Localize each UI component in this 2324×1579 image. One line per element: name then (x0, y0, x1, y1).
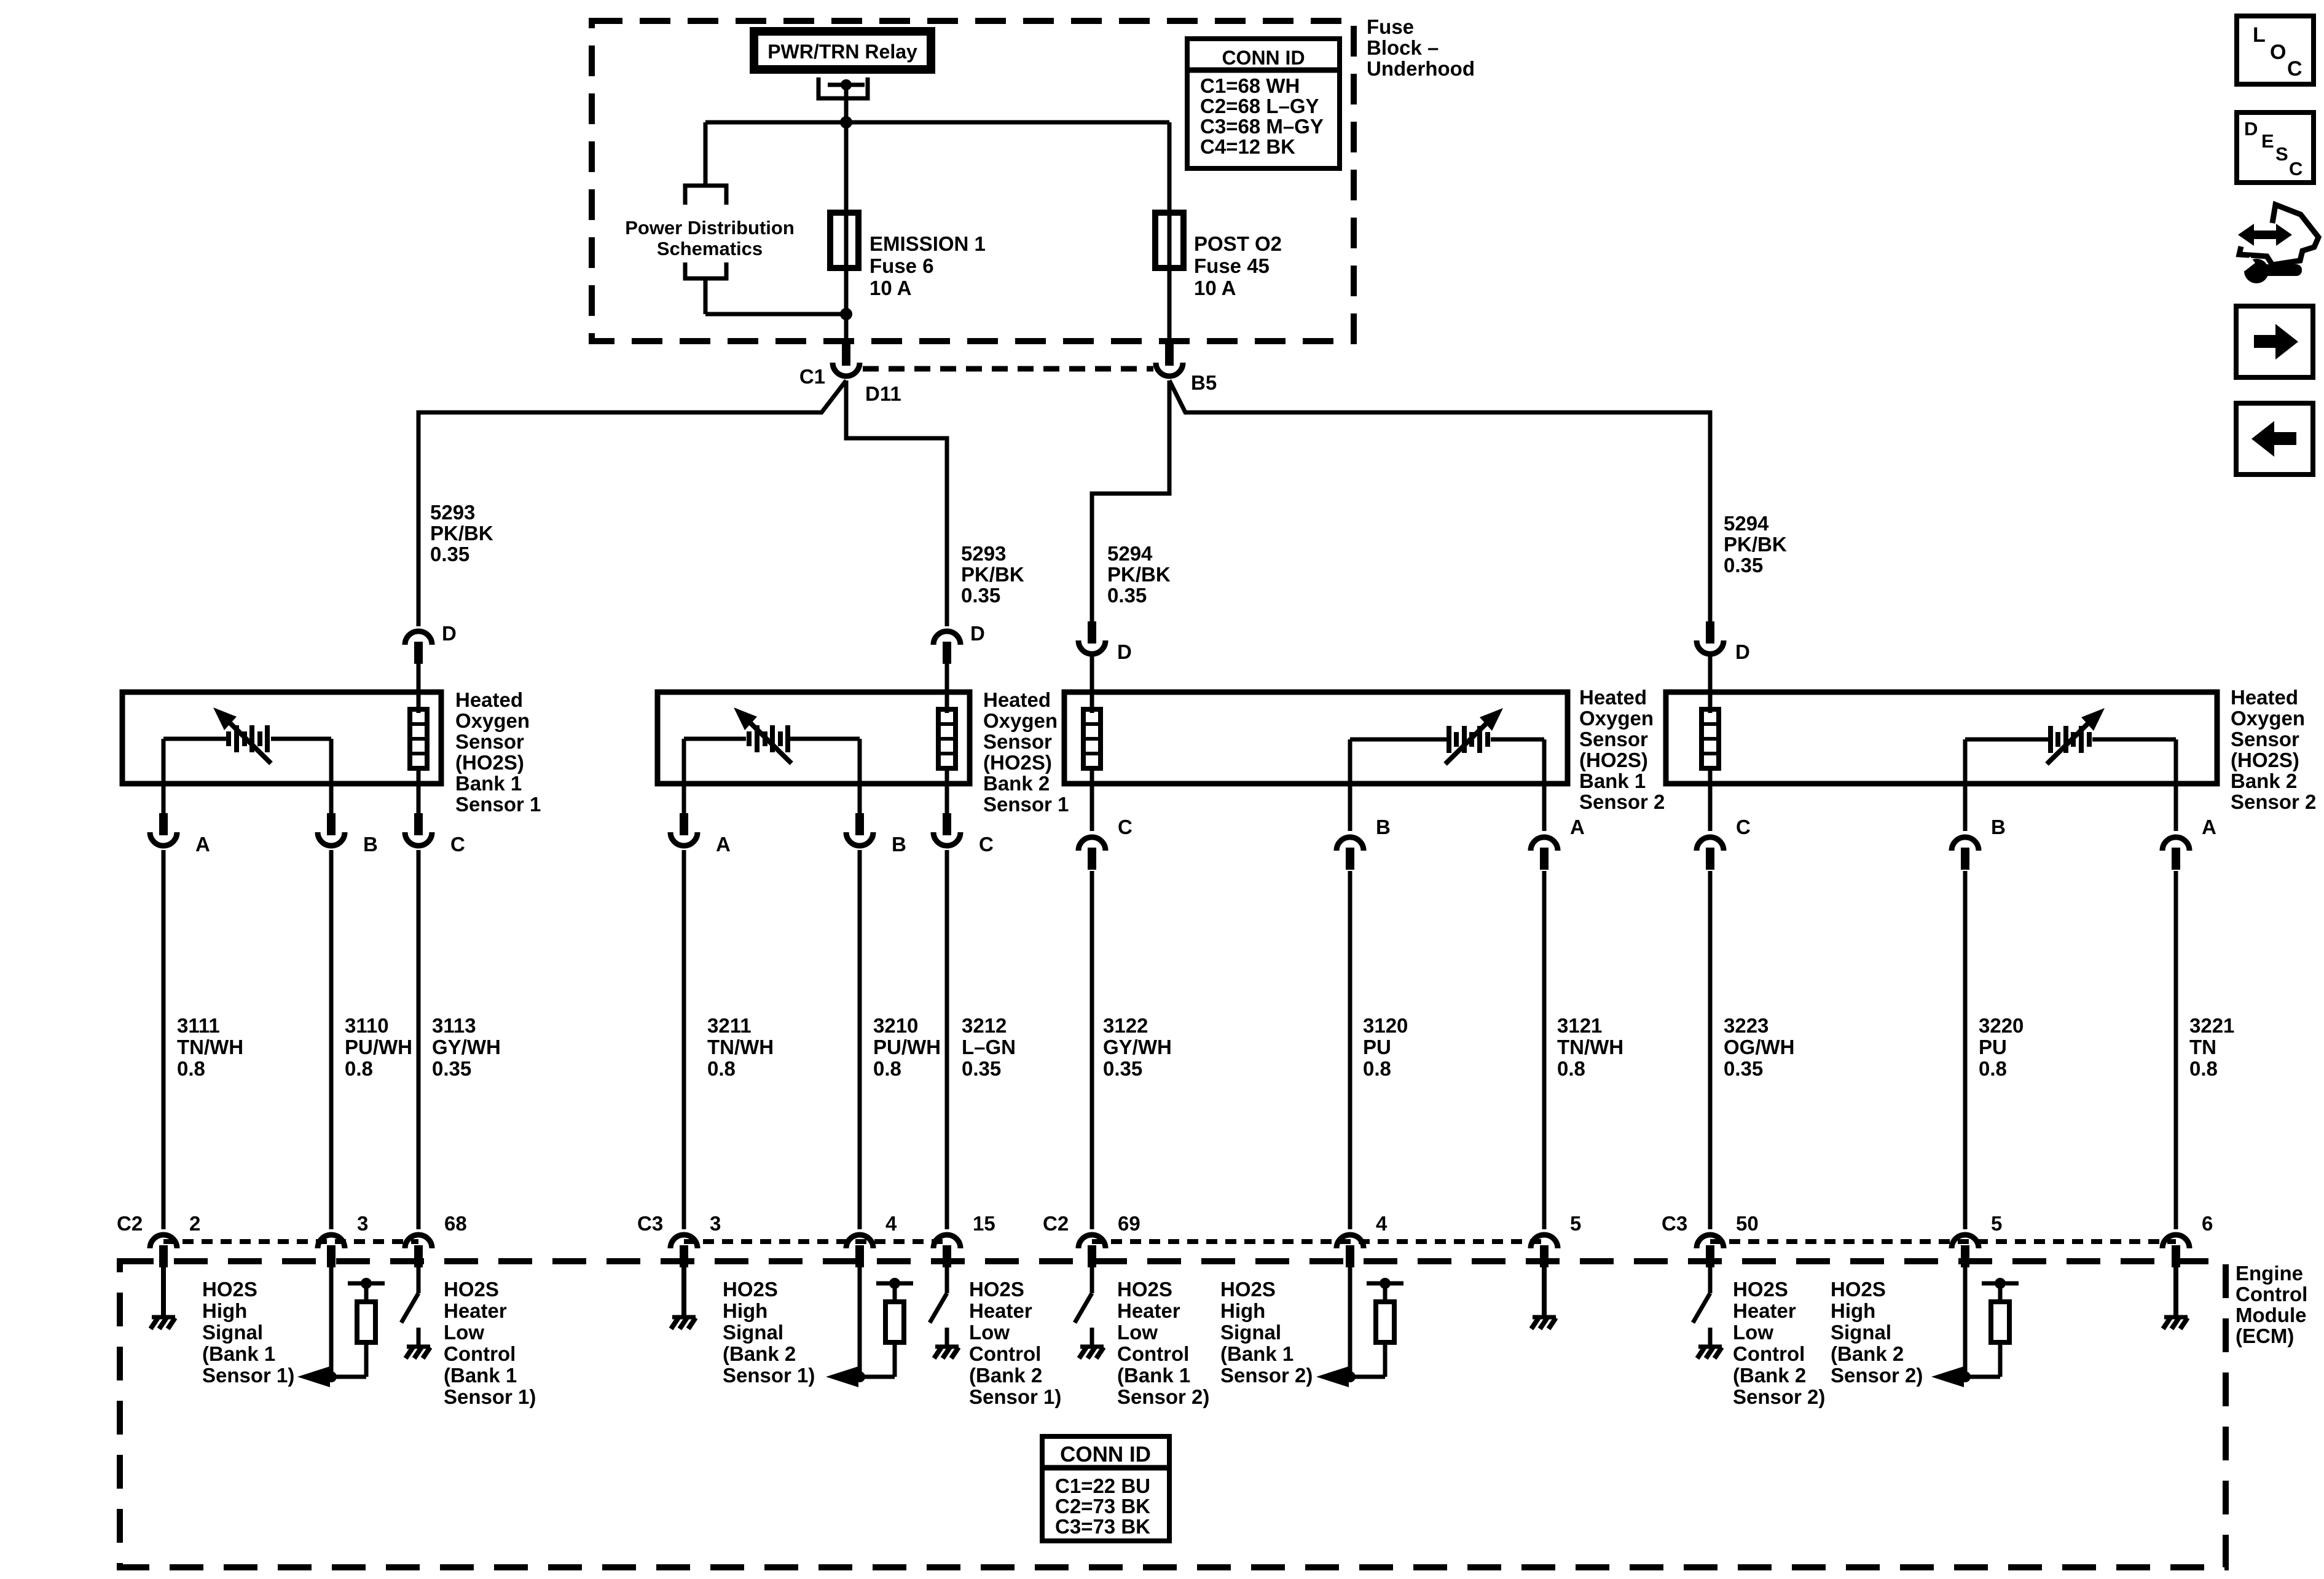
fuse F6 EMISSION 1 10A (830, 213, 858, 268)
resistor (ECM pullup) at x=2254 (1383, 1283, 1388, 1302)
ECM pin 6 connector (2162, 1235, 2189, 1248)
svg-text:Heater: Heater (444, 1299, 507, 1322)
svg-text:3211: 3211 (707, 1014, 752, 1037)
wire 3221 TN to ECM (2174, 871, 2178, 1229)
svg-text:Sensor 2: Sensor 2 (1579, 790, 1665, 813)
svg-text:HO2S: HO2S (969, 1278, 1024, 1301)
svg-text:Sensor 2): Sensor 2) (1117, 1385, 1209, 1408)
power distribution schematics link (bracket symbols) (704, 122, 708, 186)
ground (ECM internal) at x=266 (152, 1315, 175, 1320)
wire 3113 GY/WH to ECM (417, 850, 421, 1229)
arrow: signal into ECM at x=3198 (1931, 1366, 1964, 1387)
ECM pin 50 connector (1697, 1235, 1724, 1248)
sensor cell B2S2 (1965, 738, 2048, 742)
svg-text:A: A (195, 833, 210, 856)
pullup rail bar at x=3255 (1982, 1282, 2019, 1286)
wire 3210 PU/WH to ECM (858, 850, 862, 1229)
connector D at HO2S bank2 sensor2 (1706, 621, 1714, 644)
svg-text:Control: Control (1117, 1342, 1189, 1365)
svg-text:E: E (2261, 130, 2274, 152)
svg-text:D: D (970, 622, 985, 645)
wire: signal pin down to junction at x=2197 (1348, 1265, 1352, 1377)
svg-text:TN/WH: TN/WH (1557, 1036, 1623, 1058)
svg-text:(HO2S): (HO2S) (455, 751, 524, 774)
svg-text:(Bank 2: (Bank 2 (969, 1364, 1042, 1387)
connector pin C (B2S2) (1697, 837, 1724, 851)
svg-text:TN/WH: TN/WH (707, 1036, 774, 1058)
svg-text:L–GN: L–GN (962, 1036, 1016, 1058)
svg-text:Heated: Heated (983, 688, 1051, 711)
ECM pin 5 connector (1531, 1235, 1558, 1248)
node: signal junction at x=1399 (854, 1371, 865, 1382)
svg-text:3122: 3122 (1103, 1014, 1148, 1037)
svg-text:HO2S: HO2S (202, 1278, 257, 1301)
resistor (ECM pullup) at x=3255 (1998, 1283, 2003, 1302)
svg-text:(Bank 2: (Bank 2 (1831, 1342, 1904, 1365)
ECM dashed outline (Engine Control Module) (120, 1261, 2226, 1567)
connector pin C (B1S1) (414, 813, 423, 835)
svg-text:Sensor 2: Sensor 2 (2231, 790, 2316, 813)
ground below switch at x=681 (407, 1345, 430, 1349)
svg-text:C: C (2289, 158, 2302, 179)
svg-text:0.8: 0.8 (345, 1057, 373, 1080)
svg-text:C: C (2287, 57, 2302, 81)
svg-text:PU: PU (1979, 1036, 2007, 1058)
wire: pin to driver switch at x=681 (417, 1265, 421, 1293)
svg-text:Low: Low (444, 1321, 484, 1344)
wire: power distribution branch to fuse 6 node (705, 312, 846, 317)
svg-text:D: D (2244, 118, 2258, 140)
connector id table CONN ID (fuse block) (1187, 39, 1340, 168)
svg-text:Heater: Heater (969, 1299, 1032, 1322)
svg-text:Signal: Signal (723, 1321, 783, 1344)
svg-text:HO2S: HO2S (723, 1278, 778, 1301)
wire: pin to internal ground at x=2513 (1542, 1265, 1547, 1315)
svg-text:High: High (1831, 1299, 1875, 1322)
svg-text:Bank 2: Bank 2 (983, 772, 1050, 795)
connector D at HO2S bank1 sensor2 (1088, 621, 1096, 644)
svg-text:GY/WH: GY/WH (432, 1036, 501, 1058)
svg-text:High: High (723, 1299, 767, 1322)
wire: D to sensor box 1 (417, 663, 421, 713)
svg-text:HO2S: HO2S (1831, 1278, 1886, 1301)
ECM pin 15 connector (933, 1235, 960, 1248)
svg-text:3223: 3223 (1724, 1014, 1769, 1037)
sensor HO2S Bank 2 Sensor 2 box (1666, 692, 2217, 784)
connector pin A (B1S1) (159, 813, 168, 835)
svg-text:POST O2: POST O2 (1194, 232, 1282, 255)
svg-text:D: D (1735, 640, 1750, 663)
svg-text:GY/WH: GY/WH (1103, 1036, 1172, 1058)
svg-text:2: 2 (189, 1212, 200, 1235)
sensor HO2S Bank 1 Sensor 2 box (1064, 692, 1568, 784)
svg-text:Sensor 1): Sensor 1) (444, 1385, 536, 1408)
wire: B2S1 internal legs (682, 739, 686, 815)
svg-text:Engine: Engine (2236, 1262, 2303, 1285)
svg-text:0.8: 0.8 (177, 1057, 205, 1080)
svg-text:High: High (1220, 1299, 1265, 1322)
svg-text:C4=12 BK: C4=12 BK (1200, 135, 1295, 158)
svg-text:A: A (2202, 816, 2216, 838)
ground below switch at x=1777 (1080, 1345, 1104, 1349)
wire: signal pin down to junction at x=539 (329, 1265, 334, 1377)
wire: B1S1 internal legs (162, 739, 166, 815)
svg-text:(Bank 1: (Bank 1 (1220, 1342, 1294, 1365)
svg-text:50: 50 (1736, 1212, 1759, 1235)
svg-text:C3=68 M–GY: C3=68 M–GY (1200, 115, 1324, 138)
sensor cell B1S2 (1350, 738, 1447, 742)
svg-text:Sensor 2): Sensor 2) (1733, 1385, 1825, 1408)
svg-text:Underhood: Underhood (1367, 57, 1475, 80)
switch (heater driver) at x=1777 (1075, 1293, 1092, 1323)
wire: D to sensor box 4 (1708, 656, 1713, 713)
svg-text:5: 5 (1991, 1212, 2002, 1235)
svg-text:C: C (1118, 816, 1133, 838)
svg-text:Control: Control (2236, 1283, 2307, 1305)
node: bus junction at relay (840, 116, 852, 128)
connector pin C (B2S1) (943, 813, 951, 835)
ground below switch at x=1541 (935, 1345, 959, 1349)
svg-text:Low: Low (1733, 1321, 1773, 1344)
svg-text:B: B (892, 833, 906, 856)
ECM pin 5 connector (1952, 1235, 1979, 1248)
connector id table CONN ID (ECM) (1042, 1436, 1169, 1541)
resistor (ECM pullup) at x=596 (364, 1283, 369, 1302)
svg-text:PK/BK: PK/BK (961, 563, 1024, 586)
svg-text:A: A (716, 833, 731, 856)
svg-text:3221: 3221 (2189, 1014, 2234, 1037)
svg-text:C3: C3 (1662, 1212, 1687, 1235)
svg-text:Fuse: Fuse (1367, 15, 1414, 38)
pullup rail bar at x=596 (348, 1282, 385, 1286)
wire: B2S2 internal legs (1963, 739, 1968, 831)
arrow: signal into ECM at x=1399 (826, 1366, 858, 1387)
pullup rail bar at x=2254 (1367, 1282, 1403, 1286)
svg-text:0.35: 0.35 (1724, 554, 1763, 577)
svg-text:(Bank 2: (Bank 2 (1733, 1364, 1806, 1387)
svg-text:Bank 1: Bank 1 (455, 772, 522, 795)
svg-text:0.8: 0.8 (2189, 1057, 2218, 1080)
harness dashed line C1 to B5 (863, 366, 1153, 372)
svg-text:(HO2S): (HO2S) (2231, 749, 2299, 771)
wire 3223 OG/WH to ECM (1708, 871, 1713, 1229)
svg-text:3120: 3120 (1363, 1014, 1408, 1037)
svg-text:0.8: 0.8 (1363, 1057, 1391, 1080)
svg-text:Oxygen: Oxygen (2231, 707, 2305, 730)
wire: resistor to junction at x=1399 (860, 1375, 895, 1379)
svg-text:Sensor 1: Sensor 1 (455, 793, 541, 816)
wire: resistor to junction at x=2197 (1350, 1375, 1385, 1379)
svg-text:PK/BK: PK/BK (430, 522, 493, 545)
svg-text:A: A (1570, 816, 1585, 838)
wire 3212 L–GN to ECM (945, 850, 949, 1229)
fuse block - underhood (dashed outline) (592, 21, 1354, 341)
arrow: signal into ECM at x=2197 (1316, 1366, 1349, 1387)
svg-text:Heated: Heated (2231, 686, 2298, 709)
pullup rail bar at x=1456 (876, 1282, 913, 1286)
svg-text:TN: TN (2189, 1036, 2216, 1058)
svg-text:PK/BK: PK/BK (1107, 563, 1171, 586)
svg-text:D11: D11 (865, 382, 901, 405)
svg-text:15: 15 (973, 1212, 995, 1235)
svg-text:3220: 3220 (1979, 1014, 2024, 1037)
wire: resistor to junction at x=3198 (1965, 1375, 2000, 1379)
svg-text:3210: 3210 (873, 1014, 918, 1037)
svg-text:(ECM): (ECM) (2236, 1325, 2294, 1347)
svg-text:Oxygen: Oxygen (983, 709, 1058, 732)
svg-text:B5: B5 (1191, 371, 1217, 394)
svg-text:0.35: 0.35 (1103, 1057, 1142, 1080)
svg-text:3111: 3111 (177, 1014, 220, 1037)
wire 3120 PU to ECM (1348, 871, 1352, 1229)
svg-text:C1: C1 (799, 365, 825, 388)
fuse F45 POST O2 10A (1155, 213, 1184, 268)
svg-text:C: C (450, 833, 465, 856)
svg-text:S: S (2275, 143, 2288, 165)
svg-text:D: D (1117, 640, 1132, 663)
svg-text:Low: Low (969, 1321, 1010, 1344)
wire: pin to driver switch at x=2783 (1708, 1265, 1713, 1293)
ECM pin 68 connector (405, 1235, 432, 1248)
connector B5 (fuse block output) (1165, 344, 1174, 366)
svg-text:5294: 5294 (1724, 512, 1769, 535)
ECM pin 69 connector (1078, 1235, 1105, 1248)
connector D at HO2S bank1 sensor1 (405, 631, 432, 645)
svg-text:Signal: Signal (202, 1321, 263, 1344)
svg-text:HO2S: HO2S (1733, 1278, 1788, 1301)
ECM pin 4 connector (846, 1235, 873, 1248)
wire: pin to internal ground at x=1113 (681, 1265, 686, 1315)
svg-text:B: B (363, 833, 378, 856)
svg-text:High: High (202, 1299, 247, 1322)
ECM connector C2 dashed line (bank3) (1092, 1239, 1544, 1244)
wire: bus through POST O2 fuse down to B5 (1168, 122, 1172, 344)
svg-text:Power Distribution: Power Distribution (625, 217, 795, 238)
svg-text:C1=22 BU: C1=22 BU (1055, 1475, 1150, 1497)
svg-text:Sensor: Sensor (983, 730, 1052, 753)
connector pin B (B1S1) (327, 813, 336, 835)
svg-text:Block –: Block – (1367, 36, 1439, 59)
wire 5294 PK/BK: B5 to HO2S bank2 sensor2 heater (1169, 380, 1710, 624)
svg-text:10 A: 10 A (870, 277, 911, 299)
wire: pin to driver switch at x=1777 (1090, 1265, 1094, 1293)
svg-text:(Bank 2: (Bank 2 (723, 1342, 796, 1365)
svg-text:HO2S: HO2S (1220, 1278, 1276, 1301)
sensor cell B1S1 (163, 737, 229, 741)
wire 3122 GY/WH to ECM (1090, 871, 1094, 1229)
svg-text:6: 6 (2202, 1212, 2213, 1235)
svg-text:0.8: 0.8 (873, 1057, 901, 1080)
svg-text:PU/WH: PU/WH (345, 1036, 412, 1058)
icon: component locator (double arrow, outline, wrench) (2238, 224, 2292, 246)
wire 3110 PU/WH to ECM (329, 850, 334, 1229)
heater element B1S2 (1083, 709, 1101, 768)
icon box: back arrow (2236, 403, 2313, 474)
svg-text:4: 4 (885, 1212, 897, 1235)
switch (heater driver) at x=681 (401, 1293, 418, 1323)
switch (heater driver) at x=1541 (930, 1293, 947, 1323)
svg-text:0.8: 0.8 (1557, 1057, 1585, 1080)
svg-text:3113: 3113 (432, 1014, 476, 1037)
svg-text:(Bank 1: (Bank 1 (1117, 1364, 1190, 1387)
svg-text:Control: Control (969, 1342, 1041, 1365)
svg-text:C2=73 BK: C2=73 BK (1055, 1495, 1150, 1518)
heater element B2S2 (1702, 709, 1719, 768)
wire: signal pin down to junction at x=3198 (1963, 1265, 1968, 1377)
svg-text:(Bank 1: (Bank 1 (444, 1364, 517, 1387)
svg-text:0.35: 0.35 (1724, 1057, 1763, 1080)
connector pin C (B1S2) (1078, 837, 1105, 851)
svg-text:0.35: 0.35 (1107, 584, 1147, 607)
svg-text:OG/WH: OG/WH (1724, 1036, 1794, 1058)
wire: relay to bus rail (844, 85, 849, 122)
svg-text:(HO2S): (HO2S) (1579, 749, 1648, 771)
svg-text:Sensor 2): Sensor 2) (1220, 1364, 1313, 1387)
wire: pin to internal ground at x=3541 (2173, 1265, 2178, 1315)
svg-text:C: C (979, 833, 994, 856)
svg-text:Heater: Heater (1733, 1299, 1796, 1322)
sensor HO2S Bank 1 Sensor 1 box (122, 692, 441, 784)
connector pin A (B2S2) (2162, 837, 2189, 851)
svg-text:Sensor: Sensor (2231, 728, 2299, 750)
svg-text:Module: Module (2236, 1304, 2306, 1326)
wire 3121 TN/WH to ECM (1542, 871, 1547, 1229)
svg-text:3110: 3110 (345, 1014, 389, 1037)
svg-text:C2: C2 (117, 1212, 143, 1235)
connector pin B (B2S2) (1952, 837, 1979, 851)
sensor cell B2S1 (684, 737, 746, 741)
ground (ECM internal) at x=3541 (2164, 1315, 2188, 1320)
svg-text:Sensor 1: Sensor 1 (983, 793, 1069, 816)
svg-text:D: D (442, 622, 457, 645)
ECM pin 3 connector (670, 1235, 697, 1248)
svg-text:5293: 5293 (430, 501, 475, 524)
svg-text:C2=68 L–GY: C2=68 L–GY (1200, 95, 1319, 117)
svg-text:C1=68 WH: C1=68 WH (1200, 74, 1300, 97)
svg-text:L: L (2253, 23, 2266, 47)
svg-text:Sensor 1): Sensor 1) (969, 1385, 1061, 1408)
svg-text:TN/WH: TN/WH (177, 1036, 243, 1058)
svg-text:5294: 5294 (1107, 542, 1153, 565)
connector pin A (B2S1) (680, 813, 688, 835)
wire 3211 TN/WH to ECM (682, 850, 686, 1229)
icon box DESC (2237, 112, 2314, 183)
connector pin B (B2S1) (855, 813, 864, 835)
svg-text:0.35: 0.35 (961, 584, 1000, 607)
relay coil terminal (819, 77, 868, 98)
connector pin B (B1S2) (1337, 837, 1364, 851)
switch (heater driver) at x=2783 (1693, 1293, 1710, 1323)
svg-text:0.35: 0.35 (432, 1057, 471, 1080)
svg-text:3: 3 (357, 1212, 368, 1235)
svg-text:O: O (2270, 41, 2286, 64)
svg-text:Sensor 1): Sensor 1) (202, 1364, 294, 1387)
svg-text:C3: C3 (637, 1212, 663, 1235)
svg-text:Schematics: Schematics (657, 238, 763, 259)
svg-text:PU/WH: PU/WH (873, 1036, 941, 1058)
wire: pin to internal ground at x=266 (161, 1265, 166, 1315)
wire: bus through EMISSION 1 fuse down to C1 (844, 122, 849, 344)
svg-text:Sensor: Sensor (1579, 728, 1648, 750)
svg-text:Sensor: Sensor (455, 730, 524, 753)
svg-text:Heated: Heated (1579, 686, 1647, 709)
arrow: signal into ECM at x=539 (297, 1366, 330, 1387)
ECM connector C3 dashed line (bank4) (1710, 1239, 2176, 1244)
svg-text:Heated: Heated (455, 688, 523, 711)
svg-text:HO2S: HO2S (1117, 1278, 1172, 1301)
svg-text:HO2S: HO2S (444, 1278, 499, 1301)
svg-text:C: C (1736, 816, 1751, 838)
resistor (ECM pullup) at x=1456 (893, 1283, 897, 1302)
svg-text:10 A: 10 A (1194, 277, 1236, 299)
svg-text:Sensor 2): Sensor 2) (1831, 1364, 1923, 1387)
wire 5293 PK/BK: D11 to HO2S bank2 sensor1 heater (846, 380, 947, 626)
ground (ECM internal) at x=2513 (1533, 1315, 1556, 1320)
ECM pin 2 connector (150, 1235, 177, 1248)
ECM pin 4 connector (1337, 1235, 1364, 1248)
wire 5293 PK/BK: C1 to HO2S bank1 sensor1 heater (418, 380, 846, 626)
svg-text:CONN ID: CONN ID (1222, 47, 1305, 69)
relay PWR/TRN Relay (750, 27, 935, 74)
connector D at HO2S bank2 sensor1 (933, 631, 960, 645)
connector C1 D11 (fuse block output) (842, 344, 850, 366)
svg-text:5: 5 (1570, 1212, 1581, 1235)
svg-text:3212: 3212 (962, 1014, 1007, 1037)
wire 5294 PK/BK: B5 to HO2S bank1 sensor2 heater (1092, 380, 1169, 624)
ECM pin 3 connector (318, 1235, 345, 1248)
wire 3220 PU to ECM (1963, 871, 1968, 1229)
svg-text:Signal: Signal (1831, 1321, 1891, 1344)
ground (ECM internal) at x=1113 (672, 1315, 696, 1320)
svg-text:EMISSION 1: EMISSION 1 (870, 232, 986, 255)
svg-text:0.35: 0.35 (430, 543, 469, 565)
svg-text:Low: Low (1117, 1321, 1158, 1344)
svg-text:Oxygen: Oxygen (455, 709, 530, 732)
svg-text:0.8: 0.8 (707, 1057, 736, 1080)
wire: pin to driver switch at x=1541 (945, 1265, 949, 1293)
wire: fuse block bus rail (705, 120, 1169, 125)
heater element B1S1 (410, 709, 427, 768)
connector pin A (B1S2) (1531, 837, 1558, 851)
svg-text:69: 69 (1118, 1212, 1140, 1235)
svg-text:Oxygen: Oxygen (1579, 707, 1654, 730)
node: signal junction at x=539 (326, 1371, 337, 1382)
svg-text:Bank 1: Bank 1 (1579, 770, 1646, 792)
svg-text:PU: PU (1363, 1036, 1391, 1058)
node: junction below fuse 6 (840, 308, 852, 320)
svg-text:0.8: 0.8 (1979, 1057, 2007, 1080)
svg-text:Control: Control (444, 1342, 516, 1365)
svg-text:3121: 3121 (1557, 1014, 1602, 1037)
svg-text:B: B (1991, 816, 2006, 838)
wire: D to sensor box 2 (945, 663, 949, 713)
ECM connector C3 dashed line (bank2) (684, 1239, 947, 1244)
svg-text:Heater: Heater (1117, 1299, 1180, 1322)
wire: B1S2 internal legs (1348, 739, 1352, 831)
svg-text:Bank 2: Bank 2 (2231, 770, 2297, 792)
svg-text:68: 68 (444, 1212, 467, 1235)
ECM connector C2 dashed line (bank1) (163, 1239, 418, 1244)
svg-text:C2: C2 (1043, 1212, 1069, 1235)
wire: resistor to junction at x=539 (331, 1375, 366, 1379)
wire: signal pin down to junction at x=1399 (858, 1265, 862, 1377)
svg-text:(HO2S): (HO2S) (983, 751, 1052, 774)
svg-text:CONN ID: CONN ID (1060, 1443, 1151, 1467)
svg-text:Signal: Signal (1220, 1321, 1281, 1344)
heater element B2S1 (938, 709, 956, 768)
svg-text:3: 3 (710, 1212, 721, 1235)
node: signal junction at x=2197 (1345, 1371, 1356, 1382)
